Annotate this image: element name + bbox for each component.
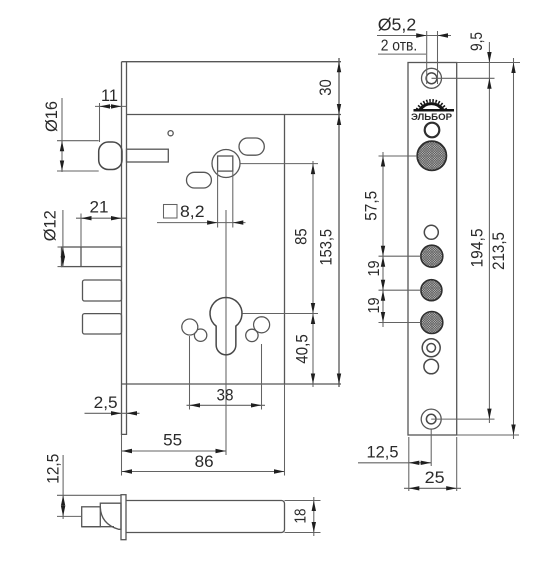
logo bar — [414, 109, 455, 112]
dim 85 — [241, 161, 319, 387]
big hatched circle (night latch hole) — [417, 141, 446, 170]
grommet double circle — [422, 339, 440, 357]
small pin circle — [168, 131, 173, 136]
dim 38 — [187, 336, 266, 410]
svg-text:18: 18 — [293, 508, 310, 523]
faceplate side view (double line) — [122, 62, 127, 435]
euro cylinder profile (union silhouette) — [210, 297, 242, 354]
lock case outline (side view) — [122, 62, 342, 384]
svg-text:19: 19 — [366, 297, 383, 313]
dim Ø5,2 2 holes — [377, 14, 451, 84]
left ear keyhole (two lobes) — [182, 319, 207, 341]
dim Ø12 — [41, 210, 66, 267]
lower oval slot — [187, 172, 212, 188]
deadbolt 1 — [62, 247, 122, 267]
svg-text:12,5: 12,5 — [367, 443, 399, 462]
latch bolt (stadium) — [99, 142, 122, 170]
deadbolt 1 cap line — [80, 247, 82, 267]
svg-text:85: 85 — [291, 228, 310, 245]
svg-text:30: 30 — [316, 79, 335, 96]
dim 2,5 — [85, 393, 140, 416]
bottom view: latch head with bevel — [100, 503, 121, 529]
svg-text:194,5: 194,5 — [468, 229, 487, 268]
small circle lower — [424, 359, 439, 374]
svg-text:86: 86 — [195, 452, 214, 471]
dim square 8,2 — [157, 202, 246, 225]
svg-text:Ø5,2: Ø5,2 — [378, 14, 417, 34]
follower hub circle — [212, 150, 240, 178]
dim 12,5 (faceplate) — [358, 430, 431, 492]
dim 153,5 — [317, 115, 342, 385]
right ear keyhole (two lobes) — [246, 317, 270, 342]
svg-text:57,5: 57,5 — [362, 191, 381, 221]
vertical center line — [225, 210, 227, 455]
svg-text:8,2: 8,2 — [180, 202, 205, 221]
small circle — [424, 225, 438, 239]
square side extension lines — [217, 171, 219, 227]
svg-text:9,5: 9,5 — [467, 32, 486, 51]
dim 25 — [404, 437, 461, 491]
deadbolt 3 — [83, 314, 122, 334]
small circle below logo — [425, 123, 440, 138]
top screw hole — [422, 68, 442, 88]
hatched circle 2 — [421, 280, 442, 301]
dim 55 — [122, 431, 227, 476]
screw center extension — [432, 77, 495, 79]
bottom view: body extension lines — [285, 500, 321, 502]
upper oval slot — [239, 138, 264, 155]
dim 18 (bottom view) — [293, 497, 317, 536]
dim Ø16 — [42, 98, 98, 172]
bottom screw hole — [421, 409, 441, 429]
dim 9,5 + 194,5 line — [467, 32, 492, 423]
faceplate front rect — [408, 63, 457, 436]
bottom screw extension — [431, 418, 494, 420]
hatched circle 3 — [421, 312, 443, 334]
bottom view: latch stem — [82, 507, 101, 527]
latch tail bar — [127, 149, 169, 162]
svg-text:40,5: 40,5 — [293, 334, 312, 364]
top edge extension — [457, 62, 520, 64]
dim 40,5 — [293, 314, 316, 385]
bottom view: lock body — [126, 501, 285, 533]
logo crown arc — [418, 102, 446, 111]
bottom view: faceplate bar — [121, 495, 126, 540]
svg-text:21: 21 — [90, 198, 109, 217]
dim 11 — [95, 86, 126, 142]
svg-text:55: 55 — [163, 431, 182, 450]
svg-text:2,5: 2,5 — [94, 393, 118, 412]
dim 86 — [122, 384, 285, 476]
dim 57,5 + 19 + 19 — [362, 152, 422, 327]
svg-text:19: 19 — [366, 260, 383, 276]
dim 213,5 — [489, 58, 516, 439]
svg-text:12,5: 12,5 — [43, 454, 62, 484]
dim 21 — [76, 198, 126, 248]
dim 12,5 (bottom view) — [43, 454, 121, 519]
hatched circle 1 — [421, 245, 443, 267]
square spindle hole 8.2 — [218, 156, 233, 171]
svg-text:2 отв.: 2 отв. — [381, 38, 418, 55]
deadbolt 2 — [83, 280, 122, 301]
svg-text:38: 38 — [217, 386, 234, 405]
svg-text:Ø16: Ø16 — [42, 101, 61, 132]
bottom edge extension — [457, 434, 519, 436]
svg-text:25: 25 — [425, 468, 445, 487]
svg-text:Ø12: Ø12 — [41, 210, 60, 241]
internal horizontal case line — [127, 114, 342, 116]
svg-text:153,5: 153,5 — [317, 229, 336, 266]
svg-text:ЭЛЬБОР: ЭЛЬБОР — [411, 112, 453, 123]
dim 30 — [316, 58, 341, 387]
internal vertical case line (86mm depth) — [284, 115, 286, 385]
svg-text:213,5: 213,5 — [489, 232, 508, 270]
bottom view: stem bottom line — [82, 526, 114, 528]
svg-text:11: 11 — [101, 86, 118, 105]
